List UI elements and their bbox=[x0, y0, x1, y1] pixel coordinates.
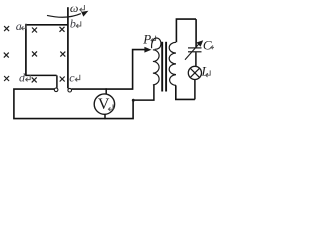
lamp X bbox=[190, 68, 199, 77]
transformer secondary coil bbox=[169, 42, 176, 85]
lead capacitor to lamp bbox=[195, 52, 197, 66]
svg-text:a: a bbox=[16, 19, 22, 33]
return mark after b bbox=[76, 21, 81, 28]
field cross r1c3 bbox=[60, 27, 65, 32]
return mark after omega bbox=[80, 5, 85, 12]
coil loop bottom side bbox=[25, 74, 56, 76]
svg-text:ω: ω bbox=[70, 1, 78, 15]
field cross r2c2 bbox=[32, 51, 37, 56]
right slip ring bbox=[68, 88, 72, 92]
junction dot bbox=[132, 99, 135, 102]
rotation arrow arc bbox=[47, 14, 81, 18]
arrowhead into primary top bbox=[144, 47, 151, 53]
coil loop left side bbox=[25, 24, 27, 75]
coil loop abcd top side bbox=[25, 24, 68, 26]
wire: dot to primary bottom bbox=[135, 85, 154, 100]
capacitor C top plate bbox=[188, 47, 202, 49]
return mark after V bbox=[108, 104, 113, 111]
transformer primary coil top curl turn bbox=[152, 38, 161, 49]
svg-text:C: C bbox=[203, 38, 212, 53]
secondary top lead and right-loop top wire bbox=[176, 19, 196, 47]
field cross r1c2 bbox=[32, 28, 37, 33]
capacitor variable arrow bbox=[185, 44, 199, 59]
field cross r3c3 bbox=[60, 77, 65, 82]
coil lead to left slip ring bbox=[56, 75, 58, 88]
lamp bottom lead bbox=[194, 80, 196, 100]
wire: right ring to top rail, up and to primary bbox=[72, 50, 146, 90]
rotation axis / coil right side bbox=[67, 7, 69, 88]
svg-text:L: L bbox=[201, 63, 209, 78]
wire: left ring to left rail and bottom rail bbox=[14, 89, 133, 119]
svg-text:d: d bbox=[19, 70, 26, 84]
return mark after P bbox=[151, 36, 156, 43]
capacitor C bottom plate bbox=[188, 51, 202, 53]
field cross r3c2 bbox=[32, 77, 37, 82]
svg-text:c: c bbox=[69, 70, 75, 84]
transformer primary coil bumps bbox=[153, 50, 159, 85]
secondary bottom lead and bottom wire bbox=[176, 85, 195, 99]
svg-text:b: b bbox=[70, 17, 76, 31]
voltmeter V bbox=[94, 94, 114, 114]
return mark after c bbox=[75, 75, 80, 82]
svg-text:P: P bbox=[142, 31, 151, 46]
field cross r2c3 bbox=[60, 52, 65, 57]
field cross r1c1 bbox=[4, 26, 66, 82]
transformer core bbox=[161, 42, 163, 92]
field cross r3c1 bbox=[4, 76, 9, 81]
left slip ring bbox=[54, 88, 58, 92]
svg-text:V: V bbox=[98, 96, 110, 113]
return mark after L bbox=[206, 70, 211, 77]
return mark after a bbox=[21, 24, 26, 31]
field cross r2c1 bbox=[4, 53, 9, 58]
lamp L circle bbox=[188, 66, 201, 79]
return mark after C bbox=[211, 43, 216, 50]
rotation arrowhead bbox=[81, 11, 88, 17]
return mark after d bbox=[26, 75, 31, 82]
